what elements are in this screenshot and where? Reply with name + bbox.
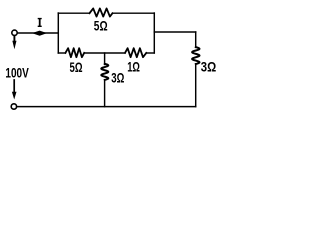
resistor 3ohm right (192, 47, 199, 64)
wire right branch down to 3ohm right (195, 32, 197, 47)
wire 3ohm right down to bottom rail (195, 64, 197, 107)
wire box right edge to right branch (154, 31, 195, 33)
top rail wire right part (113, 12, 155, 14)
resistor 3ohm middle (101, 64, 108, 80)
terminal bottom-left (11, 104, 16, 109)
svg-text:5Ω: 5Ω (70, 59, 83, 75)
svg-text:5Ω: 5Ω (94, 17, 108, 33)
label I (38, 18, 42, 27)
wire mid rail junction down to 3ohm middle (104, 53, 106, 65)
svg-text:100V: 100V (5, 66, 28, 81)
voltage source 100V bottom lead arrow (13, 80, 15, 94)
bottom rail wire (17, 106, 196, 108)
mid rail wire between resistors (84, 52, 125, 54)
box left edge wire (57, 13, 59, 53)
resistor 1ohm (125, 48, 146, 57)
terminal top-left (12, 30, 17, 35)
svg-text:3Ω: 3Ω (111, 70, 124, 86)
resistor 5ohm middle-left (65, 48, 84, 57)
resistor 5ohm top (90, 8, 113, 16)
wire top-left to box (18, 32, 59, 34)
voltage source 100V top lead arrow (13, 36, 15, 43)
mid rail wire left stub (58, 52, 65, 54)
svg-text:1Ω: 1Ω (127, 58, 140, 74)
svg-text:3Ω: 3Ω (201, 59, 216, 75)
current arrow I (32, 31, 47, 36)
wire 3ohm middle down to bottom rail (104, 80, 106, 107)
box right edge wire (153, 13, 155, 53)
mid rail wire right stub (146, 52, 154, 54)
top rail wire left part (58, 12, 89, 14)
